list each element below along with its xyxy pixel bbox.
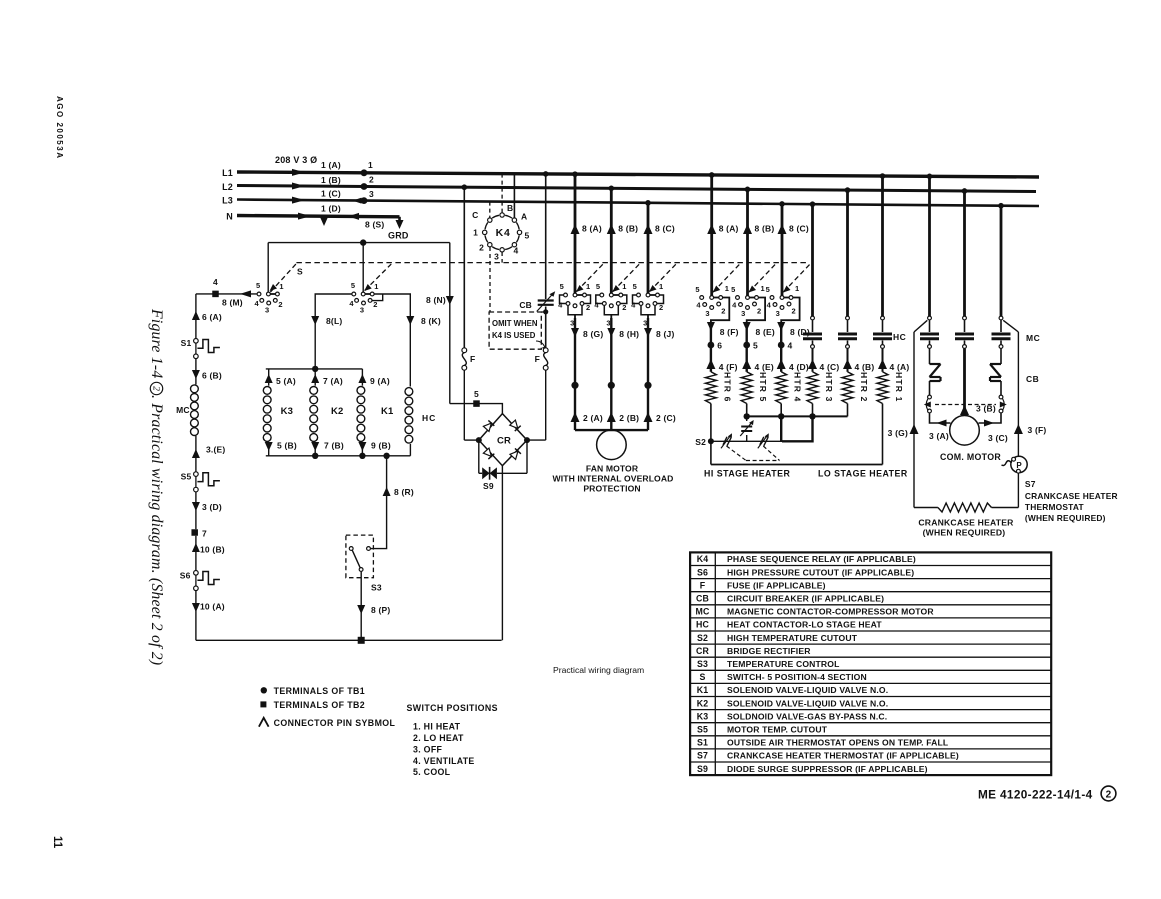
4 (D) arrow up	[777, 359, 786, 369]
svg-text:3 (D): 3 (D)	[202, 502, 222, 512]
svg-text:S7: S7	[697, 751, 708, 761]
wire feeder MC x929.5	[928, 176, 931, 316]
svg-text:CB: CB	[519, 300, 532, 310]
junction HTR6-S2	[708, 438, 714, 444]
svg-text:8 (R): 8 (R)	[394, 487, 414, 497]
svg-text:K3: K3	[281, 406, 294, 417]
svg-text:4: 4	[732, 301, 737, 310]
wire fuse to CR right corner	[545, 370, 547, 440]
svg-text:2: 2	[479, 243, 484, 253]
svg-text:3: 3	[705, 309, 709, 318]
svg-text:4: 4	[514, 246, 519, 256]
junction top rail	[312, 366, 318, 372]
terminal dot 8 (G)	[571, 382, 578, 389]
solenoid coil K2	[310, 387, 318, 395]
svg-text:S3: S3	[371, 583, 382, 593]
svg-text:MAGNETIC CONTACTOR-COMPRESSOR: MAGNETIC CONTACTOR-COMPRESSOR MOTOR	[727, 607, 934, 617]
svg-text:9 (B): 9 (B)	[371, 441, 391, 451]
wire 8 (J) drop	[647, 318, 649, 385]
svg-text:5: 5	[256, 281, 260, 290]
svg-text:S1: S1	[181, 338, 192, 348]
wire feeder 8 (C) fan	[647, 203, 650, 295]
svg-text:1 (D): 1 (D)	[321, 204, 341, 214]
junction rail HTR4	[778, 413, 784, 419]
wire feeder HTR 1	[881, 176, 884, 316]
HTR 4 label	[793, 372, 803, 403]
svg-text:1. HI HEAT: 1. HI HEAT	[413, 722, 461, 732]
wire rail to section A wiper	[267, 243, 269, 292]
svg-text:CB: CB	[696, 593, 709, 603]
contactor contact HC HTR 1	[881, 316, 885, 320]
4 (A) arrow up	[878, 359, 887, 369]
wire 8 (D) drop	[780, 324, 782, 346]
power line L2	[237, 186, 1036, 192]
svg-text:K2: K2	[331, 406, 344, 417]
svg-text:HIGH TEMPERATURE CUTOUT: HIGH TEMPERATURE CUTOUT	[727, 633, 858, 643]
svg-text:5: 5	[753, 341, 758, 351]
svg-text:HTR 2: HTR 2	[859, 372, 869, 403]
svg-text:8 (P): 8 (P)	[371, 605, 390, 615]
left branch wire top	[195, 294, 197, 339]
svg-text:6 (B): 6 (B)	[202, 371, 222, 381]
svg-text:2. LO HEAT: 2. LO HEAT	[413, 733, 464, 743]
svg-text:2: 2	[373, 300, 377, 309]
svg-text:N: N	[226, 212, 233, 222]
svg-text:4: 4	[349, 299, 354, 308]
crankcase heater resistor	[938, 503, 992, 512]
CB linkage contacts right	[999, 395, 1003, 399]
power line L3	[237, 200, 1039, 207]
svg-text:K4 IS USED: K4 IS USED	[492, 331, 536, 340]
svg-text:11: 11	[51, 836, 63, 849]
wire MC center to motor	[963, 349, 966, 416]
svg-text:SOLDNOID VALVE-GAS BY-PASS N.C: SOLDNOID VALVE-GAS BY-PASS N.C.	[727, 711, 887, 721]
svg-text:2: 2	[278, 300, 282, 309]
4 (B) arrow up	[843, 359, 852, 369]
crankcase tap left diagonal	[914, 320, 927, 332]
crankcase tap right diagonal	[1003, 320, 1018, 332]
8(L) arrow down	[311, 316, 319, 325]
svg-text:S6: S6	[180, 571, 191, 581]
2 (C) arrow up	[644, 412, 653, 422]
svg-text:4: 4	[213, 277, 218, 287]
8 (E) arrow down	[743, 322, 751, 331]
wire 8(N) riser	[449, 243, 451, 404]
wire MC to S5	[195, 436, 197, 472]
svg-text:Figure 1-4: Figure 1-4	[148, 308, 165, 378]
8 (C) arrow up fan	[644, 224, 653, 234]
svg-text:4: 4	[788, 341, 793, 351]
svg-text:1 (A): 1 (A)	[321, 160, 341, 170]
overload CB right	[1000, 349, 1002, 364]
thermostat S6	[194, 571, 199, 576]
svg-text:GRD: GRD	[388, 231, 409, 241]
HTR4-HTR3 tie U	[780, 416, 782, 441]
cutout on HTR5 drop	[746, 416, 748, 421]
svg-text:8 (K): 8 (K)	[421, 316, 441, 326]
svg-text:3: 3	[741, 309, 745, 318]
linkage diagonal to fan section 1	[577, 264, 604, 291]
svg-text:F: F	[535, 354, 540, 364]
wire section B pin5 to 8(L)	[315, 294, 352, 369]
wire rail to section B wiper	[362, 243, 364, 292]
svg-text:1 (C): 1 (C)	[321, 189, 341, 199]
terminal dot 8 (J)	[644, 382, 651, 389]
svg-text:MC: MC	[696, 607, 710, 617]
svg-text:HI STAGE HEATER: HI STAGE HEATER	[704, 469, 790, 479]
L1 flow arrow	[292, 169, 305, 176]
wire feeder HTR 3	[811, 204, 814, 316]
8 (H) arrow down	[607, 328, 615, 337]
fan switch section 2	[611, 294, 621, 296]
node 1 on L1	[361, 169, 368, 176]
6(B) arrow down	[192, 370, 200, 379]
fan switch section 3	[648, 294, 658, 296]
connector pin legend	[259, 718, 269, 727]
fan motor circle	[597, 430, 627, 460]
section B pin2 step	[372, 294, 382, 301]
svg-text:5: 5	[596, 282, 600, 291]
junction dot 4	[778, 342, 785, 349]
heater switch section 3	[782, 297, 791, 299]
thermostat S7	[1011, 456, 1027, 472]
8 (B) arrow up heater	[743, 224, 752, 234]
7 (A) arrow up	[311, 374, 319, 383]
wire to resistor HTR 4	[780, 345, 782, 372]
junction on DC rail	[360, 239, 366, 245]
wire HTR2 lower	[847, 404, 849, 417]
svg-text:HC: HC	[422, 413, 436, 423]
N line left arrow	[348, 213, 359, 220]
wire CB to fuse	[545, 307, 547, 349]
svg-text:FUSE (IF APPLICABLE): FUSE (IF APPLICABLE)	[727, 580, 826, 590]
svg-text:3 (B): 3 (B)	[976, 404, 996, 414]
3(E) arrow up	[192, 449, 200, 458]
4 (E) arrow up	[742, 359, 751, 369]
wire fuse to CR left corner	[463, 370, 465, 440]
wire CR bottom to bottom rail	[501, 466, 503, 641]
linkage diagonal to fan section 3	[650, 264, 677, 291]
svg-text:A: A	[521, 212, 527, 222]
svg-text:3: 3	[369, 189, 374, 199]
svg-text:F: F	[470, 354, 475, 364]
svg-text:7 (A): 7 (A)	[323, 376, 343, 386]
svg-text:HEAT CONTACTOR-LO STAGE HEAT: HEAT CONTACTOR-LO STAGE HEAT	[727, 620, 882, 630]
linkage diagonal to heater section 1	[713, 264, 740, 292]
svg-text:L3: L3	[222, 196, 233, 206]
wire L1 to CB	[545, 174, 547, 299]
neutral line N	[237, 216, 400, 217]
svg-text:S5: S5	[181, 472, 192, 482]
resistor HTR 5	[741, 372, 752, 404]
svg-text:3. OFF: 3. OFF	[413, 744, 442, 754]
svg-text:1: 1	[374, 282, 378, 291]
node 3 on L3	[353, 198, 362, 204]
8(R) arrow up	[383, 487, 391, 496]
8 (J) arrow down	[644, 328, 652, 337]
crankcase right riser lower	[1017, 473, 1019, 508]
svg-text:WITH INTERNAL OVERLOAD: WITH INTERNAL OVERLOAD	[553, 474, 674, 484]
L3 flow arrow	[292, 197, 305, 204]
linkage diagonal to fan section 2	[613, 264, 640, 291]
wire feeder 8 (C) heater	[781, 204, 784, 296]
svg-text:4. VENTILATE: 4. VENTILATE	[413, 756, 475, 766]
svg-text:C: C	[472, 210, 478, 220]
wire 8 (F) drop	[710, 324, 712, 346]
relay K4	[485, 215, 520, 250]
svg-text:MC: MC	[1026, 333, 1040, 343]
svg-text:HTR 3: HTR 3	[824, 372, 834, 403]
fuse F left	[462, 348, 467, 353]
svg-text:1: 1	[795, 284, 799, 293]
svg-text:2 (B): 2 (B)	[619, 413, 639, 423]
CB linkage contacts left	[928, 395, 932, 399]
junction dot 5	[743, 342, 750, 349]
power line L1	[237, 172, 1039, 177]
8 (C) arrow up heater	[778, 224, 787, 234]
svg-text:(WHEN REQUIRED): (WHEN REQUIRED)	[1025, 513, 1106, 523]
svg-text:8 (F): 8 (F)	[720, 327, 739, 337]
svg-text:S: S	[297, 267, 303, 277]
wire 8 (E) drop	[746, 324, 748, 346]
8 (A) arrow up heater	[707, 224, 716, 234]
svg-text:10 (A): 10 (A)	[200, 602, 225, 612]
contactor contact MC x1001.0	[999, 316, 1003, 320]
svg-text:1: 1	[368, 160, 373, 170]
svg-text:MC: MC	[176, 405, 190, 415]
wire bottom rail	[196, 639, 502, 641]
legend table frame	[690, 552, 1051, 775]
svg-text:S5: S5	[697, 724, 708, 734]
omit-when-K4 dashed box	[489, 312, 541, 349]
svg-text:SWITCH POSITIONS: SWITCH POSITIONS	[407, 703, 498, 713]
dashed linkage S2 a	[727, 446, 747, 461]
svg-text:HIGH PRESSURE CUTOUT (IF APPLI: HIGH PRESSURE CUTOUT (IF APPLICABLE)	[727, 567, 914, 577]
svg-text:3 (F): 3 (F)	[1028, 425, 1047, 435]
5(B) arrow down	[265, 442, 273, 451]
8 (D) arrow down	[777, 322, 785, 331]
wire feeder MC x964.5	[963, 191, 966, 316]
wire K2 drop	[314, 369, 316, 386]
svg-text:S9: S9	[483, 481, 494, 491]
GRD stub	[398, 217, 401, 221]
svg-text:10 (B): 10 (B)	[200, 545, 225, 555]
wire coil bottom rail	[266, 455, 411, 457]
10(A) arrow down	[192, 603, 200, 612]
svg-text:6: 6	[717, 341, 722, 351]
svg-text:CRANKCASE HEATER THERMOSTAT (I: CRANKCASE HEATER THERMOSTAT (IF APPLICAB…	[727, 751, 959, 761]
svg-text:S3: S3	[697, 659, 708, 669]
resistor HTR 3	[807, 372, 818, 404]
svg-text:4 (D): 4 (D)	[789, 362, 809, 372]
terminal square 4	[212, 291, 219, 298]
svg-text:5. COOL: 5. COOL	[413, 767, 451, 777]
wire K2 bottom	[314, 442, 316, 456]
svg-text:8 (E): 8 (E)	[756, 327, 775, 337]
dashed linkage S2 b	[763, 446, 779, 461]
crankcase right riser upper	[1017, 332, 1019, 456]
3(F) arrow up	[1014, 424, 1023, 434]
svg-text:3.(E): 3.(E)	[206, 445, 225, 455]
terminal square 8(P)	[358, 637, 365, 644]
3(D) arrow down	[192, 502, 200, 511]
bridge rectifier CR	[479, 414, 527, 466]
svg-text:5 (B): 5 (B)	[277, 441, 297, 451]
svg-text:4: 4	[558, 301, 563, 310]
svg-text:Practical wiring diagram: Practical wiring diagram	[553, 665, 644, 675]
svg-text:5: 5	[695, 285, 699, 294]
temperature control S3 box	[346, 535, 374, 578]
9(B) arrow down	[358, 442, 366, 451]
svg-text:ME 4120-222-14/1-4: ME 4120-222-14/1-4	[978, 788, 1093, 802]
3(B) arrow up	[960, 405, 969, 415]
wire HTR6 lower	[710, 404, 712, 465]
N flow arrow	[298, 213, 311, 220]
CB trip linkage dashed	[935, 404, 996, 406]
svg-text:S1: S1	[697, 738, 708, 748]
wire 2 (A) drop	[574, 385, 576, 430]
wire 2 (C) drop	[647, 385, 649, 430]
fuse F right	[543, 348, 548, 353]
wire DC rail	[268, 242, 450, 244]
compressor motor circle	[950, 416, 980, 446]
wire S6 to bottom rail	[195, 590, 197, 640]
contactor contact MC x929.5	[928, 316, 932, 320]
svg-text:5: 5	[351, 281, 355, 290]
dashed wire K4 pin C to L3	[489, 202, 491, 218]
svg-text:OUTSIDE AIR THERMOSTAT OPENS O: OUTSIDE AIR THERMOSTAT OPENS ON TEMP. FA…	[727, 738, 948, 748]
8 (F) arrow down	[707, 322, 715, 331]
svg-text:AGO 20053A: AGO 20053A	[55, 96, 64, 159]
svg-text:4: 4	[255, 299, 260, 308]
svg-text:MOTOR TEMP. CUTOUT: MOTOR TEMP. CUTOUT	[727, 724, 828, 734]
wire HTR3 lower stub	[812, 404, 814, 417]
wire section B pin1 to 8(K)	[374, 294, 410, 387]
svg-text:3: 3	[776, 309, 780, 318]
svg-text:HC: HC	[696, 620, 709, 630]
svg-text:4: 4	[631, 301, 636, 310]
svg-text:4: 4	[767, 301, 772, 310]
svg-text:8 (C): 8 (C)	[655, 224, 675, 234]
svg-text:2: 2	[369, 175, 374, 185]
contactor contact MC x964.5	[963, 316, 967, 320]
terminal TB1 legend	[261, 687, 267, 693]
dashed link box to CB line	[541, 311, 548, 313]
wire feeder 8 (B) fan	[610, 188, 613, 295]
svg-text:5: 5	[766, 285, 770, 294]
svg-text:HTR 6: HTR 6	[722, 372, 732, 403]
svg-text:5: 5	[633, 282, 637, 291]
svg-text:CONNECTOR PIN SYBMOL: CONNECTOR PIN SYBMOL	[274, 718, 396, 728]
svg-text:SWITCH- 5 POSITION-4 SECTION: SWITCH- 5 POSITION-4 SECTION	[727, 672, 867, 682]
switch section B	[363, 293, 372, 295]
solenoid coil K3	[263, 387, 271, 395]
svg-text:4: 4	[594, 301, 599, 310]
solenoid coil K1	[357, 387, 365, 395]
svg-text:CR: CR	[497, 436, 511, 447]
wire HC contact to resistor	[812, 349, 814, 372]
svg-text:4 (C): 4 (C)	[820, 362, 840, 372]
svg-text:K2: K2	[697, 698, 708, 708]
terminal square 5 on DC wire	[473, 400, 480, 407]
cutout S2 right	[760, 437, 764, 445]
svg-text:2: 2	[1106, 789, 1112, 800]
9 (A) arrow up	[358, 374, 366, 383]
linkage diagonal to section A	[270, 264, 296, 293]
wire 2 (B) drop	[610, 385, 612, 430]
svg-text:8 (C): 8 (C)	[789, 224, 809, 234]
wire MC right leg to motor	[979, 413, 1002, 423]
svg-text:S: S	[700, 672, 706, 682]
svg-text:2: 2	[792, 307, 796, 316]
svg-text:4 (E): 4 (E)	[755, 362, 774, 372]
svg-text:1: 1	[659, 282, 663, 291]
svg-text:FAN MOTOR: FAN MOTOR	[586, 464, 639, 474]
svg-text:9 (A): 9 (A)	[370, 376, 390, 386]
6(A) arrow up	[192, 311, 200, 320]
svg-text:5: 5	[474, 389, 479, 399]
wire coil top rail	[266, 368, 363, 370]
svg-text:8 (B): 8 (B)	[618, 224, 638, 234]
svg-text:3: 3	[494, 252, 499, 262]
resistor HTR 6	[705, 372, 716, 404]
8(K) arrow down	[406, 316, 414, 325]
4 (C) arrow up	[808, 359, 817, 369]
svg-text:THERMOSTAT: THERMOSTAT	[1025, 502, 1085, 512]
switch section A	[268, 293, 277, 295]
circuit breaker CB	[538, 299, 554, 301]
svg-text:8 (B): 8 (B)	[755, 224, 775, 234]
terminal dot 8 (H)	[608, 382, 615, 389]
dashed wire K4 pin B to L1	[501, 174, 503, 213]
svg-text:4 (A): 4 (A)	[890, 362, 910, 372]
wire MC left leg to motor	[930, 413, 951, 423]
1(D) drop stub	[323, 217, 326, 219]
overload CB left	[929, 349, 931, 364]
wire feeder 8 (A) heater	[710, 175, 713, 296]
svg-text:3 (G): 3 (G)	[888, 428, 908, 438]
svg-text:K4: K4	[496, 227, 511, 239]
svg-text:BRIDGE RECTIFIER: BRIDGE RECTIFIER	[727, 646, 811, 656]
wire K3 bottom	[268, 442, 270, 456]
svg-text:1 (B): 1 (B)	[321, 175, 341, 185]
svg-text:2: 2	[721, 307, 725, 316]
contactor contact HC HTR 3	[811, 316, 815, 320]
wire S5 to terminal 7	[195, 492, 197, 530]
svg-text:TERMINALS OF TB1: TERMINALS OF TB1	[274, 686, 365, 696]
wire HC contact to resistor	[847, 349, 849, 372]
junction coil rail 8R	[383, 453, 389, 459]
svg-text:2 (C): 2 (C)	[656, 413, 676, 423]
svg-text:208 V 3 Ø: 208 V 3 Ø	[275, 155, 317, 165]
svg-text:2: 2	[622, 303, 626, 312]
svg-text:PROTECTION: PROTECTION	[583, 484, 640, 494]
dashed wire K4 pin 3 to S line	[501, 252, 503, 263]
svg-text:P: P	[1016, 461, 1022, 470]
svg-text:HC: HC	[893, 332, 906, 342]
wire feeder MC x1001.0	[1000, 206, 1003, 316]
wire 8(R)	[371, 456, 387, 549]
svg-text:S2: S2	[697, 633, 708, 643]
svg-text:CIRCUIT BREAKER (IF APPLICABLE: CIRCUIT BREAKER (IF APPLICABLE)	[727, 593, 884, 603]
crankcase bottom right	[992, 507, 1019, 509]
svg-text:4 (F): 4 (F)	[719, 362, 738, 372]
svg-text:8 (H): 8 (H)	[619, 329, 639, 339]
wire CR top to S terminal	[450, 404, 503, 414]
node 2 on L2	[361, 183, 368, 190]
svg-text:OMIT WHEN: OMIT WHEN	[492, 319, 538, 328]
wire HTR5 lower	[746, 404, 748, 417]
